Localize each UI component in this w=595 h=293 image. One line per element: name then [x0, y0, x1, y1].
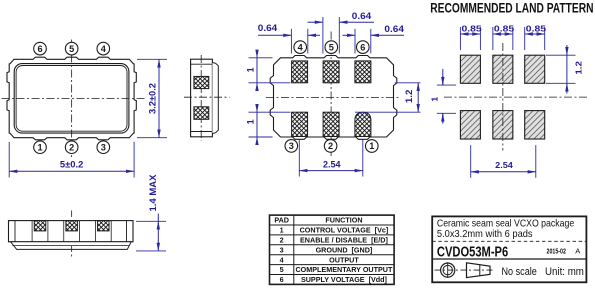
table row line 5	[270, 264, 395, 266]
svg-text:PAD: PAD	[274, 216, 289, 225]
land pattern pad bottom row col 1	[460, 111, 480, 139]
top view lid inner line	[16, 66, 127, 132]
pin 1 circle	[34, 141, 47, 154]
svg-text:6: 6	[360, 42, 365, 52]
pin 5 circle	[65, 42, 78, 55]
svg-text:3: 3	[280, 245, 284, 254]
bottom view pad 3	[292, 112, 308, 136]
svg-text:0.64: 0.64	[352, 11, 372, 21]
land pattern dim 2.54 extension lines	[470, 145, 472, 178]
land pattern horizontal centerline	[444, 96, 588, 98]
right side view pad upper	[194, 76, 209, 88]
bottom view pin 1 circle	[366, 140, 379, 153]
bottom view pad 4	[292, 61, 308, 83]
dim 0.64 pad4 extension lines	[290, 29, 292, 54]
svg-text:2.54: 2.54	[323, 160, 341, 170]
svg-text:CONTROL VOLTAGE [Vc]: CONTROL VOLTAGE [Vc]	[300, 226, 389, 235]
dimension 3.2±0.2 extension lines	[137, 58, 167, 60]
top view vertical centerline	[71, 40, 73, 158]
pin 6 circle	[34, 42, 47, 55]
svg-text:1: 1	[245, 119, 255, 124]
svg-text:SUPPLY VOLTAGE [Vdd]: SUPPLY VOLTAGE [Vdd]	[301, 275, 387, 284]
side view vertical centerline bottom	[71, 246, 73, 259]
svg-text:0.85: 0.85	[494, 23, 514, 33]
land pattern dim 1.2 extension lines	[546, 54, 576, 56]
svg-text:5: 5	[329, 42, 334, 52]
svg-text:1: 1	[245, 67, 255, 72]
land pattern dim 1.2 line	[566, 45, 568, 55]
top view horizontal centerline	[2, 98, 146, 100]
side view pad 1 cell edge lines	[31, 221, 33, 242]
svg-text:0.85: 0.85	[462, 23, 482, 33]
table row line 6	[270, 274, 395, 276]
side view pad 2 cell edge lines	[63, 221, 65, 242]
svg-text:1: 1	[280, 226, 284, 235]
pin 4 circle	[97, 42, 110, 55]
bottom view horizontal centerline	[266, 96, 401, 98]
svg-text:2015-02: 2015-02	[547, 247, 566, 256]
svg-text:GROUND [GND]: GROUND [GND]	[316, 245, 373, 254]
bottom view pad 1 (domed pin-1 marker)	[355, 112, 371, 136]
svg-text:RECOMMENDED LAND PATTERN: RECOMMENDED LAND PATTERN	[430, 1, 593, 16]
svg-text:OUTPUT: OUTPUT	[329, 255, 359, 264]
svg-text:5: 5	[69, 44, 74, 54]
bottom view left dim extension lines	[249, 57, 273, 59]
projection symbol cone	[467, 263, 491, 278]
bottom view pin 4 circle	[294, 41, 307, 54]
svg-text:0.64: 0.64	[258, 23, 278, 33]
svg-text:1.2: 1.2	[574, 61, 584, 75]
pad function table frame	[270, 215, 395, 284]
svg-text:3: 3	[289, 141, 294, 151]
svg-text:0.85: 0.85	[526, 23, 546, 33]
bottom view outline	[270, 56, 397, 140]
right side view bottom cap line	[191, 131, 213, 133]
svg-text:0.64: 0.64	[384, 24, 404, 34]
table row line 4	[270, 254, 395, 256]
dim 1 lower line	[256, 106, 258, 112]
svg-text:CVDO53M-P6: CVDO53M-P6	[437, 244, 508, 260]
svg-text:1.2: 1.2	[404, 90, 414, 104]
projection symbol circle crosshair	[447, 262, 449, 278]
land pattern pad top row col 3	[525, 55, 545, 83]
title block solid divider	[432, 258, 586, 260]
svg-text:2: 2	[328, 141, 333, 151]
table row line 2	[270, 234, 395, 236]
projection symbol circle	[441, 263, 455, 277]
svg-text:1: 1	[430, 97, 440, 102]
dim 0.64 pad5 line with outside arrows	[308, 21, 323, 23]
dim 1.2 line	[417, 83, 419, 112]
svg-text:Unit: mm: Unit: mm	[545, 266, 584, 278]
bottom view pad 2	[323, 112, 339, 136]
svg-text:5: 5	[280, 265, 284, 274]
side view lid/base outline	[11, 242, 132, 250]
svg-text:1.4 MAX: 1.4 MAX	[148, 175, 158, 212]
side view body outline	[9, 221, 134, 242]
dimension 3.2±0.2 line	[158, 59, 160, 137]
bottom view pin 2 circle	[324, 140, 337, 153]
right side view vertical centerline	[200, 55, 202, 141]
svg-text:5.0x3.2mm with 6 pads: 5.0x3.2mm with 6 pads	[437, 229, 533, 240]
side view right end cap line	[126, 221, 128, 242]
bottom view pin 3 circle	[285, 140, 298, 153]
table row line 1	[270, 224, 395, 226]
land pattern pad bottom row col 3	[525, 111, 545, 139]
title block dashed divider	[432, 240, 586, 242]
bottom view pad 6	[355, 61, 371, 83]
side view castellation pad 3	[98, 221, 110, 231]
svg-text:6: 6	[280, 275, 284, 284]
top view lid outer line	[14, 64, 129, 134]
svg-text:5±0.2: 5±0.2	[60, 160, 84, 170]
svg-text:3: 3	[101, 142, 106, 152]
bottom view pad 5	[323, 61, 339, 83]
svg-text:1: 1	[37, 142, 42, 152]
dim 2.54 line	[299, 170, 363, 172]
dim 1.2 extension lines	[395, 82, 421, 84]
side view vertical centerline top tick	[71, 211, 73, 218]
package top view outer outline	[7, 57, 136, 140]
dimension 5±0.2 extension lines	[8, 142, 10, 178]
dim 2.54 extension lines	[298, 140, 300, 177]
svg-text:4: 4	[280, 255, 284, 264]
pin 3 circle	[97, 141, 110, 154]
svg-text:2.54: 2.54	[495, 160, 513, 170]
land pattern pad top row col 2	[493, 55, 513, 83]
dimension 1.4 MAX line	[157, 214, 159, 222]
side view castellation pad 1	[34, 221, 46, 231]
dim 0.64 pad5 extension lines	[322, 17, 324, 54]
side view castellation pad 2	[66, 221, 78, 231]
svg-text:6: 6	[37, 44, 42, 54]
svg-text:4: 4	[298, 42, 304, 52]
pin 2 circle	[65, 141, 78, 154]
dim 0.64 pad4 line	[258, 34, 291, 36]
dim 1 upper line	[256, 52, 258, 58]
bottom view pin 5 circle	[325, 41, 338, 54]
side view pad 3 cell edge lines	[94, 221, 96, 242]
svg-text:1: 1	[369, 141, 374, 151]
table column divider	[293, 215, 295, 284]
land pattern pad top row col 1	[460, 55, 480, 83]
dim 0.85 col 3	[524, 27, 526, 50]
svg-text:COMPLEMENTARY OUTPUT: COMPLEMENTARY OUTPUT	[295, 265, 393, 274]
svg-text:Ceramic seam seal VCXO package: Ceramic seam seal VCXO package	[437, 219, 575, 230]
dimension 5±0.2 line	[9, 170, 134, 172]
svg-text:FUNCTION: FUNCTION	[325, 216, 362, 225]
right side view horizontal centerline	[184, 96, 230, 98]
svg-text:ENABLE / DISABLE [E/D]: ENABLE / DISABLE [E/D]	[300, 235, 388, 244]
land pattern dim 1 line	[442, 69, 444, 85]
side view lid middle line	[13, 245, 130, 247]
svg-text:2: 2	[280, 235, 284, 244]
svg-text:3.2±0.2: 3.2±0.2	[147, 83, 157, 114]
svg-text:4: 4	[101, 44, 107, 54]
right side view pad lower	[194, 107, 209, 120]
dim 0.85 col 1	[459, 27, 461, 50]
title block frame	[432, 216, 586, 282]
land pattern vertical centerline	[502, 43, 504, 151]
dimension 1.4 MAX extension lines	[136, 220, 166, 222]
dim 0.64 pad6 extension lines	[354, 29, 356, 54]
bottom view vertical centerline	[330, 32, 332, 157]
side view left end cap line	[14, 221, 16, 242]
right side view top cap line	[191, 63, 213, 65]
svg-text:2: 2	[69, 142, 74, 152]
dim 0.64 pad6 line	[343, 34, 356, 36]
right side view lid outline	[212, 63, 218, 134]
projection symbol centerline	[435, 269, 495, 271]
right side view body outline	[191, 59, 213, 137]
bottom view pin 6 circle	[357, 41, 370, 54]
land pattern dim 1 left extension lines	[437, 84, 456, 86]
dim 0.85 col 2	[492, 27, 494, 50]
land pattern dim 2.54 line	[471, 171, 536, 173]
table row line 3	[270, 244, 395, 246]
svg-text:No scale: No scale	[502, 266, 537, 278]
land pattern pad bottom row col 2	[493, 111, 513, 139]
